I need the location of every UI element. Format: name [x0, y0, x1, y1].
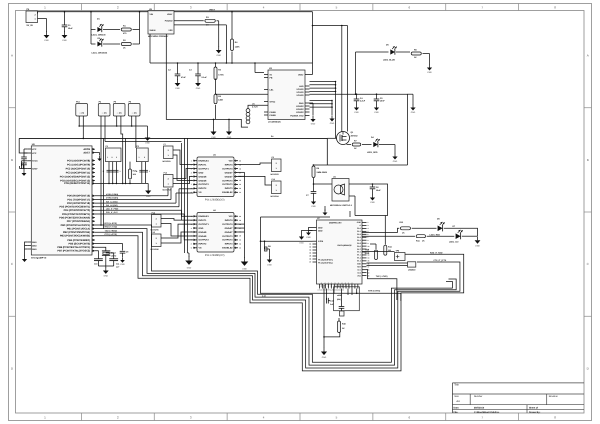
svg-text:A7D8: A7D8 — [318, 240, 324, 243]
svg-text:1: 1 — [149, 170, 150, 173]
svg-text:INPUT4: INPUT4 — [225, 163, 234, 166]
svg-text:GND4/7: GND4/7 — [225, 171, 234, 174]
svg-text:0.1uF: 0.1uF — [202, 76, 208, 79]
svg-text:2: 2 — [168, 149, 169, 152]
svg-text:VCUPS: VCUPS — [296, 94, 304, 97]
svg-text:A: A — [11, 54, 13, 58]
svg-text:M25P80-ART: M25P80-ART — [329, 222, 342, 225]
svg-text:1: 1 — [168, 154, 169, 157]
svg-text:SHDN: SHDN — [150, 29, 156, 32]
svg-text:GND1: GND1 — [330, 282, 333, 287]
svg-text:MOTOR4: MOTOR4 — [271, 195, 280, 198]
svg-text:— (N): — (N) — [102, 112, 107, 115]
svg-text:GND: GND — [318, 229, 323, 232]
svg-text:140K: 140K — [235, 46, 240, 49]
svg-text:PGOOD: PGOOD — [165, 20, 173, 23]
svg-text:P15: P15 — [164, 171, 167, 174]
svg-text:P9.15(A/D6+/BL): P9.15(A/D6+/BL) — [318, 261, 333, 264]
svg-text:P0.3: P0.3 — [357, 236, 361, 239]
svg-text:GND: GND — [354, 111, 359, 114]
svg-text:GND: GND — [187, 267, 192, 270]
svg-text:P9: P9 — [272, 156, 274, 159]
svg-text:x4B8: x4B8 — [337, 294, 342, 297]
svg-text:2.2uF: 2.2uF — [360, 100, 366, 103]
svg-text:VCC: VCC — [32, 152, 37, 155]
svg-text:OUTPUT3: OUTPUT3 — [222, 235, 233, 238]
svg-text:PC3 (ADC3/PCINT11): PC3 (ADC3/PCINT11) — [66, 171, 90, 174]
svg-text:OUTPUT3: OUTPUT3 — [222, 179, 233, 182]
svg-text:PB0 (PCINT0/CLKO/ICP1): PB0 (PCINT0/CLKO/ICP1) — [61, 224, 91, 227]
svg-text:GND4/7: GND4/7 — [225, 231, 234, 234]
svg-text:OUTPUT2: OUTPUT2 — [199, 239, 210, 242]
svg-text:OUTPUT3: OUTPUT3 — [222, 183, 233, 186]
svg-text:Size: Size — [454, 395, 459, 398]
svg-text:100K: 100K — [365, 252, 370, 255]
svg-text:MTR2 (3/4EN): MTR2 (3/4EN) — [106, 197, 119, 200]
svg-text:LTC4065EDC: LTC4065EDC — [268, 121, 281, 124]
svg-text:INPUT4: INPUT4 — [225, 219, 234, 222]
svg-text:PC6 (RESET/PCINT14): PC6 (RESET/PCINT14) — [64, 182, 90, 185]
svg-text:RXD_IT_RXD: RXD_IT_RXD — [430, 251, 443, 254]
svg-text:GND4/6: GND4/6 — [199, 175, 208, 178]
svg-text:10nF: 10nF — [380, 100, 385, 103]
svg-text:PC1 (ADC1/PCINT9): PC1 (ADC1/PCINT9) — [67, 163, 90, 166]
svg-text:LED1_RED: LED1_RED — [367, 151, 378, 154]
svg-text:MOTOR1: MOTOR1 — [163, 160, 171, 163]
svg-text:4.7uH: 4.7uH — [252, 106, 258, 109]
svg-text:P0.7: P0.7 — [357, 248, 361, 251]
svg-text:MOTOR2: MOTOR2 — [163, 188, 171, 191]
svg-text:ENABLE1: ENABLE1 — [199, 215, 210, 218]
svg-text:PWRD: PWRD — [270, 114, 277, 117]
svg-text:GND: GND — [322, 356, 327, 359]
svg-text:A: A — [587, 54, 589, 58]
svg-text:LED1_Gre: LED1_Gre — [449, 240, 460, 243]
svg-text:P13: P13 — [152, 231, 155, 234]
svg-text:GND: GND — [196, 87, 201, 90]
svg-text:GND: GND — [44, 39, 49, 42]
svg-text:C10: C10 — [94, 262, 97, 265]
svg-text:LED2_BLUB: LED2_BLUB — [383, 59, 395, 62]
svg-text:XC2: XC2 — [357, 271, 361, 274]
svg-text:GND: GND — [306, 236, 311, 239]
svg-text:Title: Title — [454, 384, 459, 387]
svg-text:PB5 (SCK/PCINT5): PB5 (SCK/PCINT5) — [68, 242, 90, 245]
svg-text:B: B — [11, 158, 13, 162]
svg-text:GND: GND — [199, 227, 204, 230]
svg-text:10uF: 10uF — [68, 27, 73, 30]
svg-text:PMCU(48MHZ)2: PMCU(48MHZ)2 — [337, 244, 351, 247]
svg-text:2: 2 — [168, 178, 169, 181]
svg-text:GND: GND — [199, 171, 204, 174]
svg-text:GND: GND — [374, 111, 379, 114]
svg-text:ATmega48P-AI: ATmega48P-AI — [31, 257, 47, 260]
svg-text:INPUT3: INPUT3 — [225, 187, 234, 190]
svg-text:OUTPUT2: OUTPUT2 — [199, 183, 210, 186]
svg-text:P0.1: P0.1 — [357, 230, 361, 233]
svg-text:OUTPUT1: OUTPUT1 — [199, 223, 210, 226]
svg-text:PC0 (ADC0/PCINT8): PC0 (ADC0/PCINT8) — [67, 159, 90, 162]
svg-text:PC4 (ADC4/SDA/PCINT12): PC4 (ADC4/SDA/PCINT12) — [60, 175, 90, 178]
svg-text:GND: GND — [357, 221, 362, 224]
svg-text:GND: GND — [211, 136, 216, 139]
svg-text:1: 1 — [276, 167, 277, 170]
svg-text:OUTPUT1: OUTPUT1 — [199, 167, 210, 170]
svg-text:LED1_ORANGE: LED1_ORANGE — [92, 52, 108, 55]
svg-text:Revision: Revision — [549, 395, 559, 398]
svg-text:2: 2 — [144, 156, 145, 159]
svg-text:— (N): — (N) — [117, 112, 122, 115]
svg-text:C9: C9 — [126, 250, 128, 253]
svg-text:OUTPUT4: OUTPUT4 — [222, 167, 233, 170]
svg-text:GND: GND — [242, 268, 247, 271]
svg-text:SW_A1 (SIG): SW_A1 (SIG) — [106, 200, 118, 203]
svg-text:47nF: 47nF — [181, 76, 186, 79]
svg-text:1: 1 — [276, 189, 277, 192]
svg-text:P0.0: P0.0 — [357, 227, 361, 230]
svg-text:LED_IF_PWM: LED_IF_PWM — [106, 208, 119, 211]
svg-text:Drawn By:: Drawn By: — [529, 411, 541, 414]
svg-text:VSS: VSS — [168, 29, 173, 32]
svg-text:GND: GND — [227, 136, 232, 139]
svg-text:RTR (<-RTS): RTR (<-RTS) — [368, 290, 380, 293]
svg-text:P14 L293DD(2/2): P14 L293DD(2/2) — [205, 254, 225, 257]
svg-text:PWRD: PWRD — [270, 111, 277, 114]
svg-text:28/5/2010: 28/5/2010 — [474, 406, 485, 409]
svg-text:1: 1 — [156, 223, 157, 226]
svg-text:OUTPUT4: OUTPUT4 — [222, 223, 233, 226]
svg-text:PD7 (PCINT23/AIN1): PD7 (PCINT23/AIN1) — [67, 220, 90, 223]
svg-text:GND: GND — [104, 275, 109, 278]
svg-text:CTC/CTD/CTT/TAUN/AN/AN2/AN3: CTC/CTD/CTT/TAUN/AN/AN2/AN3 — [318, 288, 344, 291]
svg-text:1: 1 — [120, 170, 121, 173]
svg-text:VIN: VIN — [150, 13, 154, 16]
svg-text:PB: PB — [270, 76, 273, 79]
svg-text:GND: GND — [318, 226, 323, 229]
svg-text:PB1 (PCINT1/OC1A): PB1 (PCINT1/OC1A) — [67, 227, 90, 230]
svg-text:P1.1: P1.1 — [357, 254, 361, 257]
svg-text:INPUT3: INPUT3 — [225, 243, 234, 246]
svg-text:PORG2: PORG2 — [296, 105, 304, 108]
svg-text:GND4/6: GND4/6 — [199, 231, 208, 234]
svg-text:P0.6: P0.6 — [357, 245, 361, 248]
svg-text:1: 1 — [156, 242, 157, 245]
svg-text:GND4/6: GND4/6 — [199, 179, 208, 182]
svg-text:PC2 (ADC2/PCINT10): PC2 (ADC2/PCINT10) — [66, 167, 91, 170]
svg-text:2N7002: 2N7002 — [351, 134, 359, 137]
svg-text:GND: GND — [330, 122, 335, 125]
svg-text:VBAT: VBAT — [167, 13, 173, 16]
svg-text:GND: GND — [267, 263, 272, 266]
svg-text:— (N): — (N) — [132, 112, 137, 115]
svg-text:MTR1 (1/2EN): MTR1 (1/2EN) — [106, 193, 119, 196]
svg-text:2: 2 — [112, 156, 113, 159]
svg-text:— (N): — (N) — [79, 112, 84, 115]
svg-text:GND: GND — [120, 263, 125, 266]
svg-text:VCUPS: VCUPS — [296, 91, 304, 94]
svg-text:GND4/7: GND4/7 — [225, 175, 234, 178]
svg-text:INPUT1: INPUT1 — [199, 163, 208, 166]
svg-text:PB7 (PCINT7/XTAL2/TOSC2): PB7 (PCINT7/XTAL2/TOSC2) — [57, 250, 90, 253]
svg-text:GND: GND — [299, 102, 304, 105]
svg-text:Date:: Date: — [454, 406, 460, 409]
svg-text:AVCC: AVCC — [32, 160, 38, 163]
svg-text:PD1 (TXD/PCINT17): PD1 (TXD/PCINT17) — [67, 198, 90, 201]
svg-text:GND: GND — [475, 245, 480, 248]
svg-text:2: 2 — [276, 184, 277, 187]
svg-text:C:\Bluet\Bluetl.Ddb2\cc: C:\Bluet\Bluetl.Ddb2\cc — [474, 411, 500, 414]
svg-text:P1.2: P1.2 — [357, 257, 361, 260]
svg-text:PORG2: PORG2 — [296, 108, 304, 111]
svg-text:1: 1 — [139, 156, 140, 159]
svg-text:AREF: AREF — [32, 167, 38, 170]
svg-text:GND1: GND1 — [327, 282, 330, 287]
svg-text:PB3 (PCINT3/OC2A/MOSI): PB3 (PCINT3/OC2A/MOSI) — [60, 235, 90, 238]
svg-text:GND: GND — [32, 244, 37, 247]
svg-text:POWER_PAD: POWER_PAD — [290, 114, 304, 117]
svg-text:PB4 (PCINT4/MISO): PB4 (PCINT4/MISO) — [67, 239, 90, 242]
svg-text:5V_IN: 5V_IN — [27, 24, 33, 27]
svg-text:P0.4: P0.4 — [357, 239, 361, 242]
svg-text:1: 1 — [168, 183, 169, 186]
svg-text:A4: A4 — [456, 400, 460, 403]
svg-text:2: 2 — [156, 237, 157, 240]
svg-text:GND: GND — [62, 39, 67, 42]
svg-text:SMM-20KB: SMM-20KB — [317, 171, 328, 174]
svg-text:GND4/7: GND4/7 — [225, 227, 234, 230]
svg-text:10nF: 10nF — [376, 189, 381, 192]
svg-text:OUTPUT3: OUTPUT3 — [222, 239, 233, 242]
svg-text:TXE (->TXD): TXE (->TXD) — [376, 275, 388, 278]
svg-text:XC1: XC1 — [357, 268, 361, 271]
svg-text:INPUT2: INPUT2 — [199, 187, 208, 190]
svg-text:C11: C11 — [116, 262, 119, 265]
svg-text:SYNC: SYNC — [270, 100, 276, 103]
svg-text:GND: GND — [370, 201, 375, 204]
svg-text:LBO: LBO — [299, 85, 304, 88]
svg-text:GND: GND — [427, 71, 432, 74]
svg-text:ENABLE2: ENABLE2 — [222, 191, 233, 194]
svg-text:GND: GND — [32, 248, 37, 251]
svg-text:VCUPS: VCUPS — [296, 88, 304, 91]
svg-text:P0.5: P0.5 — [357, 242, 361, 245]
svg-text:GND: GND — [32, 241, 37, 244]
svg-text:GND4/6: GND4/6 — [199, 235, 208, 238]
svg-text:PB2 (PCINT2/SS/OC1B): PB2 (PCINT2/SS/OC1B) — [63, 231, 90, 234]
svg-text:CTS_IT_(CTS: CTS_IT_(CTS — [434, 259, 447, 262]
svg-text:3: 3 — [116, 156, 117, 159]
svg-text:VBAT: VBAT — [209, 9, 215, 12]
svg-text:P7: P7 — [164, 143, 166, 146]
svg-text:R13: R13 — [133, 170, 136, 173]
svg-text:P14 L293DD(2/2): P14 L293DD(2/2) — [205, 198, 225, 201]
svg-text:PD2 (INT0/PCINT18): PD2 (INT0/PCINT18) — [67, 202, 90, 205]
svg-text:GND: GND — [299, 242, 304, 245]
svg-text:SPK_IF_OUT: SPK_IF_OUT — [106, 211, 119, 214]
svg-text:SW_A2 (SIG): SW_A2 (SIG) — [106, 204, 118, 207]
svg-text:INPUT2: INPUT2 — [199, 243, 208, 246]
svg-text:P0.2: P0.2 — [357, 233, 361, 236]
svg-text:P12: P12 — [152, 211, 155, 214]
svg-text:1: 1 — [107, 156, 108, 159]
svg-text:GND1: GND1 — [320, 282, 323, 287]
svg-text:P1.0: P1.0 — [357, 251, 361, 254]
svg-text:2: 2 — [156, 218, 157, 221]
svg-text:GND: GND — [175, 87, 180, 90]
svg-text:File:: File: — [454, 411, 459, 414]
svg-text:ENABLE1: ENABLE1 — [199, 160, 210, 163]
svg-text:PD0 (RXD/PCINT16): PD0 (RXD/PCINT16) — [67, 195, 90, 198]
svg-text:B: B — [587, 158, 589, 162]
svg-text:LED1_GREEN: LED1_GREEN — [92, 33, 106, 36]
svg-text:PD4 (PCINT20/XCK/T0): PD4 (PCINT20/XCK/T0) — [64, 209, 91, 212]
svg-text:GND: GND — [311, 205, 316, 208]
svg-text:GND: GND — [311, 123, 316, 126]
svg-text:P10: P10 — [272, 178, 275, 181]
svg-text:GND1: GND1 — [323, 282, 326, 287]
svg-text:(B4): (B4) — [337, 298, 341, 301]
svg-text:P1.3: P1.3 — [357, 260, 361, 263]
svg-text:GND: GND — [393, 160, 398, 163]
svg-text:140K: 140K — [218, 99, 223, 102]
svg-text:P9.16(A/D8+/BT.): P9.16(A/D8+/BT.) — [318, 258, 333, 261]
svg-text:INPUT1: INPUT1 — [199, 219, 208, 222]
svg-text:VCC: VCC — [32, 148, 37, 151]
svg-text:GND: GND — [145, 142, 150, 145]
svg-text:GND: GND — [411, 111, 416, 114]
svg-text:PD5 (PCINT21/OC0B/T1): PD5 (PCINT21/OC0B/T1) — [62, 213, 90, 216]
svg-text:ENABLE2: ENABLE2 — [222, 247, 233, 250]
svg-text:PORG2: PORG2 — [296, 111, 304, 114]
svg-text:MIC5205LN-3 ROTLO-3: MIC5205LN-3 ROTLO-3 — [330, 204, 353, 207]
svg-text:2: 2 — [276, 162, 277, 165]
svg-text:PB6 (PCINT6/XTAL1/TOSC1): PB6 (PCINT6/XTAL1/TOSC1) — [57, 246, 90, 249]
svg-text:0.75K: 0.75K — [218, 74, 224, 77]
svg-text:GND: GND — [216, 54, 221, 57]
svg-text:PD6 (PCINT22/OC0A/AIN0): PD6 (PCINT22/OC0A/AIN0) — [59, 216, 90, 219]
svg-text:VBAT: VBAT — [298, 73, 304, 76]
svg-text:MOTOR3: MOTOR3 — [271, 173, 279, 176]
svg-text:Number: Number — [474, 395, 483, 398]
svg-text:Sheet of: Sheet of — [529, 406, 538, 409]
svg-text:PD3 (PCINT19/OC2B/INT1): PD3 (PCINT19/OC2B/INT1) — [60, 206, 91, 209]
svg-text:ADC7: ADC7 — [83, 151, 90, 154]
svg-text:LM4040: LM4040 — [408, 269, 416, 272]
